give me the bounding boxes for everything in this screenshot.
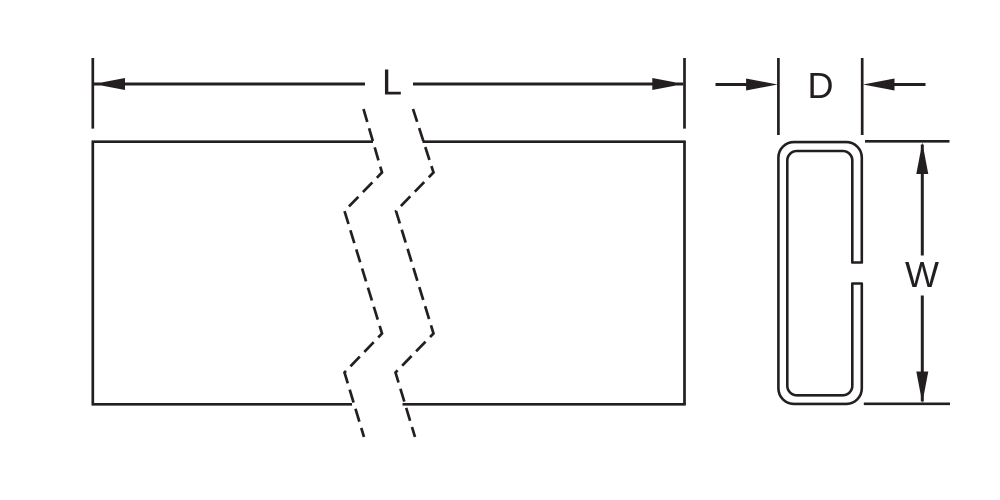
D dimension arrow shaft (right, outside) [891, 83, 926, 86]
W dimension arrowhead (top, points up) [916, 143, 928, 175]
L dimension line (two segments with label gap) [94, 83, 683, 86]
svg-text:W: W [905, 254, 939, 295]
L dimension arrowhead (right, points right) [652, 78, 684, 90]
part body rectangle (left edge) [91, 142, 94, 405]
part body rectangle (bottom edge, broken) [92, 403, 686, 406]
D dimension arrowhead (left, points right) [746, 79, 778, 91]
D dimension arrow shaft (left, outside) [716, 83, 751, 86]
W dimension arrowhead (bottom, points down) [916, 372, 928, 404]
svg-text:L: L [382, 62, 402, 103]
part body rectangle (right edge) [683, 142, 686, 405]
D dimension extension line (right) [861, 58, 864, 135]
D dimension extension line (left) [777, 58, 780, 135]
W dimension line (two segments with label gap) [921, 145, 924, 402]
L dimension extension line (left) [91, 58, 94, 129]
W dimension extension line (top) [865, 140, 950, 143]
D dimension arrowhead (right, points left) [863, 79, 895, 91]
L dimension extension line (right) [683, 58, 686, 129]
break line (left dashed zigzag) [345, 109, 383, 437]
L dimension arrowhead (left, points left) [94, 78, 126, 90]
channel cross-section profile [778, 142, 861, 404]
W dimension extension line (bottom) [864, 402, 950, 405]
svg-text:D: D [808, 65, 834, 106]
break line (right dashed zigzag) [396, 109, 434, 437]
part body rectangle (top edge, broken) [92, 140, 686, 143]
